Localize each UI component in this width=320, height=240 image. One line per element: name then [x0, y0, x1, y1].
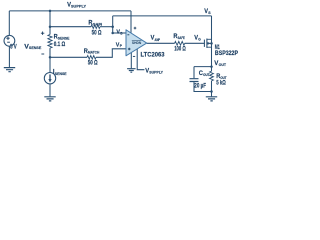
- ground below 5V source: [4, 68, 15, 72]
- wire COUT top lead: [193, 67, 195, 79]
- node dot rail/RSENSE: [49, 10, 52, 13]
- wire 5V source bottom lead: [8, 46, 10, 67]
- svg-text:BSP322P: BSP322P: [215, 50, 238, 57]
- svg-text:OUT: OUT: [219, 63, 227, 67]
- svg-text:MATCH: MATCH: [88, 51, 100, 55]
- node dot VOUT: [210, 65, 213, 68]
- minus label VSENSE: [41, 53, 44, 55]
- wire ISENSE to ground: [49, 84, 51, 97]
- resistor R_SENSE: [48, 35, 52, 49]
- svg-text:SENSE: SENSE: [55, 72, 67, 76]
- svg-text:S: S: [208, 11, 211, 15]
- node dot VS junction: [111, 25, 114, 28]
- svg-text:20 µF: 20 µF: [194, 83, 206, 89]
- wire ISENSE branch: [49, 57, 51, 72]
- wire 5V source top lead: [8, 11, 10, 36]
- transistor M1 source lead: [207, 38, 212, 40]
- svg-text:OUT: OUT: [203, 73, 210, 77]
- current source ISENSE circle: [44, 73, 55, 84]
- wire COUT bottom lead: [194, 82, 212, 91]
- svg-text:AMP: AMP: [155, 38, 161, 42]
- transistor M1 source vertical: [211, 16, 213, 67]
- wire feedback top: [113, 15, 212, 17]
- svg-text:SUPPLY: SUPPLY: [149, 70, 163, 74]
- wire bottom rail left: [50, 56, 87, 58]
- wire RMATCH right: [96, 49, 127, 58]
- transistor M1 drain lead: [207, 46, 212, 48]
- resistor R_OUT: [210, 71, 214, 81]
- svg-text:OUT: OUT: [220, 76, 227, 80]
- wire ROUT bottom lead: [211, 81, 213, 97]
- resistor R_GAIN: [91, 25, 100, 29]
- wire gate: [185, 42, 205, 44]
- ground below ISENSE: [44, 97, 55, 101]
- wire VOUT node left: [194, 66, 212, 68]
- svg-text:5 kΩ: 5 kΩ: [216, 80, 226, 86]
- node dot output ground junction: [210, 90, 213, 93]
- svg-text:SHDN: SHDN: [132, 41, 142, 45]
- svg-text:SUPPLY: SUPPLY: [71, 4, 86, 8]
- plus mark inside 5V source: [6, 36, 9, 40]
- minus mark op-amp top input: [127, 34, 129, 36]
- node dot VS input: [111, 32, 114, 35]
- op-amp U1 LTC2063 triangle: [126, 30, 147, 56]
- wire RSENSE branch bottom: [49, 48, 51, 57]
- wire RGAIN right: [100, 26, 113, 28]
- wire SHDN pin: [137, 49, 144, 70]
- arrowhead M1 body (PMOS): [208, 42, 211, 45]
- overline of SHDN: [132, 40, 142, 42]
- transistor M1 body lead: [207, 42, 212, 44]
- svg-text:LTC2063: LTC2063: [141, 52, 165, 59]
- wire op-amp V+ supply drop: [130, 11, 132, 33]
- svg-text:50 Ω: 50 Ω: [92, 31, 102, 37]
- transistor M1 channel bar: [206, 39, 208, 48]
- node dot M1 body tie: [210, 42, 213, 45]
- wire op-amp output: [147, 42, 175, 44]
- wire minus input: [113, 32, 127, 34]
- wire ROUT top lead: [211, 67, 213, 72]
- svg-text:5 V: 5 V: [10, 45, 17, 51]
- svg-text:0.1 Ω: 0.1 Ω: [54, 42, 66, 48]
- minus mark inside 5V source: [7, 41, 10, 43]
- wire node VS vertical: [112, 16, 114, 33]
- wire RGAIN left: [50, 26, 91, 28]
- svg-text:G: G: [198, 37, 201, 41]
- node dot bottom rail: [49, 56, 52, 59]
- plus mark op-amp bottom input: [128, 48, 131, 51]
- arrowhead ISENSE: [48, 79, 51, 83]
- wire V_SUPPLY top rail: [9, 10, 131, 12]
- node dot RGAIN tap: [49, 25, 52, 28]
- wire op-amp V- pin to ground: [130, 52, 132, 68]
- wire RSENSE branch top: [49, 11, 51, 35]
- svg-text:P: P: [120, 44, 123, 48]
- ground output: [206, 97, 217, 101]
- svg-text:GAIN: GAIN: [93, 22, 103, 26]
- voltage source V1 5V circle: [4, 35, 15, 46]
- arrow shaft inside ISENSE source: [49, 74, 51, 80]
- capacitor C_OUT plates: [190, 79, 199, 82]
- minus mark op-amp V- supply pin: [133, 55, 135, 57]
- svg-text:100 Ω: 100 Ω: [174, 47, 186, 53]
- plus mark op-amp V+ supply pin: [134, 27, 137, 30]
- svg-text:50 Ω: 50 Ω: [88, 61, 98, 67]
- transistor M1 gate bar: [203, 40, 205, 47]
- plus label VSENSE: [41, 32, 44, 35]
- resistor R_SAFE: [175, 41, 185, 45]
- svg-text:SENSE: SENSE: [58, 36, 70, 40]
- resistor R_MATCH: [87, 56, 96, 60]
- svg-text:SENSE: SENSE: [29, 46, 42, 50]
- svg-text:SAFE: SAFE: [178, 36, 186, 40]
- ground op-amp V-: [127, 69, 136, 73]
